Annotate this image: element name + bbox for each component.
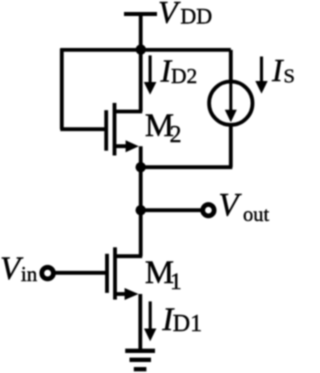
svg-text:2: 2: [170, 122, 182, 148]
svg-text:DD: DD: [180, 4, 212, 29]
svg-text:out: out: [243, 204, 270, 226]
svg-text:D1: D1: [173, 311, 202, 337]
svg-text:in: in: [21, 262, 38, 286]
svg-text:S: S: [284, 66, 295, 88]
svg-text:V: V: [218, 188, 242, 224]
svg-text:I: I: [271, 52, 284, 88]
svg-text:D2: D2: [171, 64, 197, 88]
svg-text:1: 1: [170, 269, 182, 295]
svg-text:V: V: [158, 0, 181, 30]
